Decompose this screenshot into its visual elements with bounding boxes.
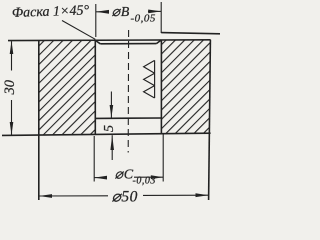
svg-text:⌀B: ⌀B (112, 5, 131, 20)
dim B line right (148, 10, 161, 12)
dim C line left (94, 177, 106, 179)
dim 5 upper arrow line (110, 92, 112, 118)
dim C extension left (93, 136, 95, 182)
leader chamfer (62, 21, 95, 40)
bore left wall (94, 40, 96, 135)
svg-text:30: 30 (2, 79, 18, 95)
dim 5 lower arrow line (111, 135, 113, 160)
axis center line (127, 30, 129, 153)
dim 30 arrow up (10, 41, 14, 54)
chamfer edge line (100, 43, 156, 45)
chamfer right diagonal (156, 40, 161, 44)
dim 5 upper arrowhead (110, 105, 114, 118)
hatch left wall (40, 41, 95, 135)
paper background (0, 0, 220, 210)
dim C line right (134, 176, 163, 178)
bore right wall (160, 40, 162, 133)
chamfer left diagonal (95, 40, 100, 43)
svg-text:Фаска 1×45°: Фаска 1×45° (12, 3, 90, 21)
hatch right wall (162, 40, 210, 133)
bottom face (2, 133, 211, 135)
dim C arrow right (151, 175, 163, 179)
dim B line left (96, 11, 106, 13)
dim C extension right (162, 134, 164, 182)
top face (8, 39, 211, 42)
top-right reference line (161, 33, 220, 34)
svg-text:-0,03: -0,03 (133, 176, 156, 187)
dim B arrow right (148, 10, 161, 14)
svg-text:⌀C: ⌀C (115, 168, 134, 183)
dim 50 line left (39, 195, 108, 197)
dim 30 arrow down (10, 122, 14, 135)
dim 50 arrow right (196, 193, 209, 197)
step line (95, 117, 161, 119)
left outer edge (38, 41, 40, 200)
svg-text:⌀50: ⌀50 (112, 189, 138, 206)
right outer edge (209, 40, 211, 200)
dim 50 line right (143, 194, 208, 196)
dim 30 line upper (11, 41, 13, 70)
dim C arrow left (94, 176, 107, 180)
dim 50 arrow left (39, 194, 52, 198)
dim 30 line lower (11, 100, 13, 135)
dim B arrow left (96, 10, 109, 14)
svg-text:-0,05: -0,05 (131, 13, 156, 25)
svg-text:5: 5 (102, 125, 117, 132)
dim B extension right (160, 2, 162, 33)
dim 5 lower arrowhead (110, 135, 114, 150)
surface finish triangles (144, 60, 155, 98)
dim B extension left (95, 4, 97, 37)
